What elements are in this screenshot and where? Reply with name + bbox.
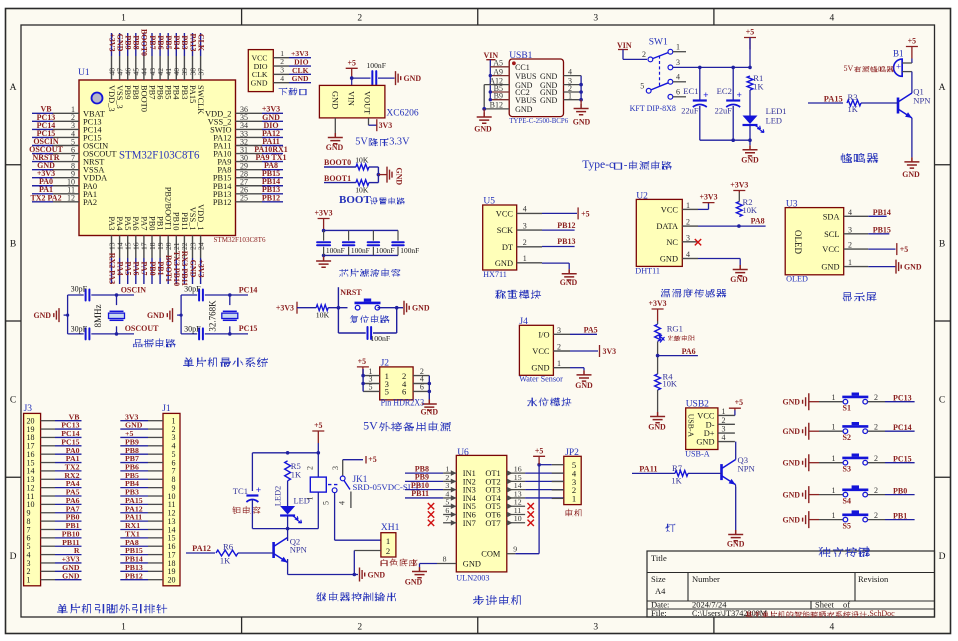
svg-text:PB0: PB0 [893, 486, 907, 495]
svg-text:4: 4 [280, 74, 284, 83]
svg-text:+5: +5 [358, 357, 366, 366]
svg-text:PB5: PB5 [164, 35, 173, 49]
svg-text:Revision: Revision [858, 574, 889, 584]
svg-text:22uF: 22uF [715, 107, 733, 116]
svg-text:PC14: PC14 [239, 286, 258, 295]
svg-text:BOOT1: BOOT1 [324, 174, 351, 183]
svg-text:GND: GND [368, 571, 386, 580]
svg-text:VCC: VCC [661, 205, 679, 214]
svg-text:1K: 1K [220, 557, 230, 566]
svg-text:PA8: PA8 [751, 216, 765, 225]
svg-text:1: 1 [848, 258, 852, 267]
svg-text:PB7: PB7 [147, 85, 156, 99]
svg-text:GND: GND [730, 275, 748, 284]
svg-text:R3: R3 [848, 92, 858, 102]
svg-text:+: + [703, 91, 708, 101]
svg-text:GND: GND [326, 143, 344, 152]
svg-text:30pF: 30pF [184, 284, 201, 293]
svg-text:1: 1 [832, 423, 836, 432]
svg-text:XH1: XH1 [381, 523, 400, 533]
svg-text:Type-c: Type-c [582, 158, 614, 171]
svg-text:VCC: VCC [496, 209, 514, 218]
svg-text:2: 2 [306, 466, 315, 470]
svg-text:100nF: 100nF [351, 246, 370, 255]
svg-text:PA5: PA5 [584, 325, 598, 334]
svg-text:12: 12 [67, 194, 75, 203]
svg-text:GND: GND [404, 74, 422, 83]
svg-text:R7: R7 [672, 463, 683, 473]
svg-text:PB1: PB1 [893, 511, 907, 520]
svg-text:A: A [939, 83, 946, 93]
svg-text:3: 3 [557, 326, 561, 335]
svg-text:-: - [624, 159, 628, 171]
svg-text:OT7: OT7 [485, 519, 500, 528]
svg-text:2: 2 [523, 238, 527, 247]
svg-text:D: D [10, 552, 17, 562]
svg-text:PB9: PB9 [124, 35, 133, 49]
svg-text:GND: GND [821, 263, 839, 272]
svg-text:A: A [10, 83, 17, 93]
svg-text:+3V3: +3V3 [315, 209, 333, 218]
svg-text:1K: 1K [291, 471, 301, 480]
svg-text:+5: +5 [368, 455, 376, 464]
svg-text:BOOT0: BOOT0 [140, 29, 149, 56]
svg-text:R1: R1 [753, 73, 763, 83]
svg-text:GND: GND [782, 490, 800, 499]
svg-text:R6: R6 [223, 542, 234, 552]
svg-text:GND: GND [33, 311, 51, 320]
svg-text:STM32F103C8T6: STM32F103C8T6 [119, 149, 200, 161]
svg-text:PA15: PA15 [188, 85, 197, 103]
svg-text:PB4: PB4 [172, 35, 181, 49]
svg-text:VBUS: VBUS [515, 72, 536, 81]
svg-text:CC1: CC1 [515, 63, 530, 72]
svg-text:4: 4 [722, 433, 726, 442]
svg-text:GND: GND [904, 263, 922, 272]
svg-text:PC13: PC13 [893, 394, 912, 403]
svg-text:GND: GND [648, 423, 666, 432]
svg-text:PC14: PC14 [893, 423, 912, 432]
svg-text:2: 2 [848, 241, 852, 250]
svg-text:STM32F103C8T6: STM32F103C8T6 [214, 235, 266, 244]
svg-text:S3: S3 [843, 465, 851, 474]
svg-text:RX3 PB11: RX3 PB11 [180, 251, 189, 286]
svg-text:1: 1 [121, 14, 126, 24]
svg-text:GND: GND [782, 515, 800, 524]
svg-text:PA15: PA15 [824, 95, 843, 104]
svg-text:GND: GND [292, 74, 309, 83]
svg-text:4: 4 [338, 501, 347, 505]
svg-text:SW1: SW1 [649, 38, 668, 48]
svg-text:PB8: PB8 [131, 85, 140, 99]
svg-text:+5: +5 [581, 209, 589, 218]
svg-text:100nF: 100nF [367, 61, 386, 70]
svg-text:30pF: 30pF [71, 284, 88, 293]
svg-text:PB11: PB11 [411, 489, 429, 498]
svg-text:S4: S4 [843, 496, 851, 505]
svg-text:37: 37 [196, 68, 205, 76]
svg-text:2: 2 [686, 218, 690, 227]
svg-text:KFT DIP-8X8: KFT DIP-8X8 [630, 104, 676, 113]
svg-text:B: B [10, 239, 16, 249]
svg-text:8: 8 [443, 555, 447, 564]
svg-text:GND: GND [560, 278, 578, 287]
svg-text:D-: D- [706, 420, 715, 429]
svg-text:GND: GND [412, 304, 430, 313]
svg-text:Title: Title [651, 553, 667, 563]
svg-text:PB6: PB6 [156, 35, 165, 49]
svg-text:1: 1 [686, 201, 690, 210]
svg-text:10: 10 [514, 514, 522, 523]
svg-text:PB14: PB14 [873, 208, 891, 217]
svg-text:PA7: PA7 [140, 261, 149, 275]
svg-text:B1: B1 [893, 49, 904, 59]
svg-text:PA7: PA7 [139, 216, 148, 230]
svg-text:2: 2 [642, 50, 646, 59]
svg-text:1: 1 [722, 407, 726, 416]
svg-text:DT: DT [502, 243, 513, 252]
svg-text:SCK: SCK [497, 226, 513, 235]
svg-text:SWCLK: SWCLK [196, 85, 205, 114]
svg-text:PB12: PB12 [125, 571, 143, 580]
svg-text:NPN: NPN [290, 545, 308, 555]
svg-text:D: D [939, 552, 946, 562]
svg-text:VSS_1: VSS_1 [188, 207, 197, 231]
svg-text:Size: Size [651, 574, 666, 584]
svg-text:GND: GND [696, 438, 714, 447]
svg-text:Pin HDR2X3: Pin HDR2X3 [381, 399, 425, 409]
svg-text:PA5: PA5 [124, 261, 133, 275]
svg-text:IN7: IN7 [463, 519, 476, 528]
svg-text:PB8: PB8 [132, 35, 141, 49]
svg-text:NPN: NPN [913, 96, 931, 106]
svg-text:+: + [896, 62, 901, 72]
svg-text:VDD_3: VDD_3 [107, 85, 116, 112]
svg-text:100nF: 100nF [376, 246, 395, 255]
svg-text:32.768K: 32.768K [208, 300, 218, 332]
svg-text:I/O: I/O [538, 330, 549, 339]
svg-text:+3V3: +3V3 [699, 193, 717, 202]
svg-text:OLED: OLED [786, 274, 808, 283]
svg-text:1: 1 [523, 254, 527, 263]
svg-text:3.3V: 3.3V [389, 137, 410, 148]
svg-text:4: 4 [523, 205, 527, 214]
svg-text:4: 4 [568, 67, 572, 76]
svg-text:Number: Number [692, 574, 720, 584]
svg-text:NC: NC [666, 238, 678, 247]
svg-text:GND: GND [540, 72, 558, 81]
svg-text:PA2: PA2 [83, 198, 97, 207]
svg-text:GND: GND [421, 408, 439, 417]
svg-text:BOOT0: BOOT0 [139, 85, 148, 112]
svg-text:BOOT: BOOT [339, 194, 371, 206]
svg-text:5: 5 [385, 387, 389, 397]
svg-text:GND: GND [474, 124, 492, 133]
svg-text:2: 2 [357, 14, 362, 24]
svg-text:2: 2 [874, 511, 878, 520]
svg-text:100nF: 100nF [400, 246, 419, 255]
svg-text:10K: 10K [743, 206, 757, 215]
svg-text:NPN: NPN [738, 463, 756, 473]
svg-text:GND: GND [782, 459, 800, 468]
svg-text:2: 2 [874, 423, 878, 432]
svg-text:PB12: PB12 [557, 221, 575, 230]
svg-text:J1: J1 [162, 404, 171, 414]
svg-text:R5: R5 [291, 461, 301, 471]
svg-text:8MHz: 8MHz [93, 304, 103, 327]
svg-text:6: 6 [420, 383, 424, 392]
svg-text:OSCIN: OSCIN [121, 286, 147, 295]
svg-text:LED: LED [766, 117, 782, 126]
svg-text:PB13: PB13 [557, 237, 575, 246]
svg-text:GND: GND [902, 170, 920, 179]
svg-text:PB12: PB12 [262, 193, 280, 202]
svg-text:1: 1 [832, 486, 836, 495]
svg-text:+5: +5 [908, 37, 916, 46]
svg-text:24: 24 [196, 242, 205, 250]
svg-text:C: C [939, 396, 945, 406]
svg-text:3: 3 [686, 233, 690, 242]
svg-text:6: 6 [676, 88, 680, 97]
svg-text:.SchDoc: .SchDoc [867, 609, 895, 618]
svg-text:C:\Users\JT3742309M: C:\Users\JT3742309M [692, 609, 768, 618]
svg-text:PA6: PA6 [131, 216, 140, 230]
svg-text:A4: A4 [655, 586, 666, 596]
svg-text:3V3: 3V3 [379, 121, 393, 130]
svg-text:+3V3: +3V3 [276, 304, 294, 313]
svg-text:PB4: PB4 [172, 85, 181, 100]
svg-text:PA4: PA4 [115, 261, 124, 275]
svg-text:VDD_1: VDD_1 [196, 204, 205, 231]
svg-text:+5: +5 [900, 245, 908, 254]
svg-text:+: + [256, 486, 261, 496]
svg-text:5V: 5V [363, 419, 378, 433]
svg-text:10K: 10K [316, 311, 330, 320]
svg-text:4: 4 [676, 73, 680, 82]
svg-text:PC15: PC15 [893, 455, 912, 464]
svg-text:VBUS: VBUS [515, 96, 536, 105]
svg-text:GND: GND [62, 571, 80, 580]
svg-text:VOUT: VOUT [363, 91, 372, 114]
svg-text:1: 1 [27, 575, 31, 584]
svg-text:PC15: PC15 [239, 324, 258, 333]
svg-text:S5: S5 [843, 521, 851, 530]
svg-text:1: 1 [832, 454, 836, 463]
svg-text:PB1: PB1 [156, 216, 165, 230]
svg-text:7: 7 [445, 514, 449, 523]
svg-text:VSS_3: VSS_3 [115, 85, 124, 109]
svg-text:U1: U1 [78, 68, 90, 78]
svg-text:100nF: 100nF [370, 334, 391, 343]
svg-text:1: 1 [121, 623, 126, 633]
svg-text:LED1: LED1 [766, 106, 787, 116]
svg-text:PA6: PA6 [132, 261, 141, 275]
svg-text:25: 25 [240, 194, 248, 203]
svg-text:1: 1 [306, 497, 315, 501]
svg-text:OSCOUT: OSCOUT [125, 324, 159, 333]
svg-text:VIN: VIN [347, 91, 356, 106]
svg-text:1K: 1K [671, 476, 681, 485]
svg-text:1: 1 [568, 92, 572, 101]
svg-text:PB12: PB12 [213, 198, 232, 207]
svg-text:+: + [736, 91, 741, 101]
svg-text:10K: 10K [355, 156, 369, 165]
svg-text:Water Sensor: Water Sensor [519, 375, 563, 384]
svg-text:B: B [939, 239, 945, 249]
svg-text:EC2: EC2 [717, 86, 732, 96]
svg-text:GND: GND [463, 560, 481, 569]
svg-text:3: 3 [523, 221, 527, 230]
svg-text:S2: S2 [843, 433, 851, 442]
svg-text:30pF: 30pF [71, 324, 88, 333]
svg-text:4: 4 [848, 208, 852, 217]
svg-text:+5: +5 [735, 398, 743, 407]
svg-text:PB3: PB3 [180, 35, 189, 49]
svg-text:J3: J3 [24, 404, 33, 414]
svg-text:3: 3 [593, 623, 598, 633]
svg-text:5V: 5V [844, 64, 854, 73]
svg-text:DHT11: DHT11 [635, 267, 660, 276]
svg-text:2: 2 [874, 486, 878, 495]
svg-text:EC1: EC1 [683, 86, 698, 96]
svg-text:1: 1 [386, 536, 390, 546]
svg-text:Sheet: Sheet [815, 600, 835, 610]
svg-text:LED2: LED2 [274, 486, 283, 506]
svg-text:USB-A: USB-A [685, 450, 710, 459]
svg-text:TYPE-C-2500-BCP6: TYPE-C-2500-BCP6 [509, 116, 568, 125]
svg-text:PA11: PA11 [639, 465, 657, 474]
svg-text:+5: +5 [314, 421, 322, 430]
svg-text:GND: GND [660, 255, 678, 264]
svg-text:BOOT1: BOOT1 [164, 255, 173, 282]
svg-text:2: 2 [357, 623, 362, 633]
svg-text:C: C [10, 396, 16, 406]
svg-text:PB2/BOOT1: PB2/BOOT1 [164, 187, 173, 231]
svg-text:PB1: PB1 [156, 261, 165, 275]
svg-text:PB0: PB0 [148, 261, 157, 275]
svg-text:1: 1 [676, 43, 680, 52]
svg-text:DATA: DATA [656, 222, 678, 231]
svg-text:5V: 5V [355, 137, 368, 148]
svg-text:OLED: OLED [793, 230, 803, 254]
svg-text:CLK: CLK [196, 34, 205, 52]
svg-text:5: 5 [640, 82, 644, 91]
svg-text:File:: File: [651, 608, 667, 618]
svg-text:TX3 PB10: TX3 PB10 [172, 251, 181, 286]
svg-text:2: 2 [874, 393, 878, 402]
svg-text:GND: GND [727, 540, 745, 549]
svg-text:GND: GND [540, 96, 558, 105]
svg-text:20: 20 [168, 575, 176, 584]
svg-text:GND: GND [531, 364, 549, 373]
svg-text:3: 3 [848, 225, 852, 234]
svg-text:3: 3 [593, 14, 598, 24]
svg-text:VCC: VCC [697, 411, 715, 420]
svg-text:NRST: NRST [340, 288, 362, 297]
svg-text:PB7: PB7 [148, 35, 157, 49]
svg-text:RG1: RG1 [667, 323, 683, 333]
svg-text:GND: GND [573, 117, 591, 126]
svg-text:2: 2 [874, 454, 878, 463]
svg-text:GND: GND [515, 105, 533, 114]
svg-text:+5: +5 [535, 446, 543, 455]
svg-text:PA5: PA5 [123, 216, 132, 230]
svg-text:4: 4 [830, 623, 835, 633]
svg-text:GND: GND [741, 156, 759, 165]
svg-text:100nF: 100nF [326, 246, 345, 255]
svg-text:PB10: PB10 [172, 212, 181, 231]
svg-text:5: 5 [322, 501, 331, 505]
svg-text:S1: S1 [843, 404, 851, 413]
svg-text:3: 3 [331, 466, 340, 470]
svg-text:GND: GND [188, 260, 197, 278]
svg-text:PB0: PB0 [147, 216, 156, 230]
svg-text:VCC: VCC [532, 347, 550, 356]
svg-text:PB6: PB6 [156, 85, 165, 99]
svg-text:GND: GND [782, 427, 800, 436]
svg-text:PB5: PB5 [164, 85, 173, 99]
svg-text:+5: +5 [347, 58, 355, 67]
svg-text:1K: 1K [753, 83, 763, 92]
svg-text:RX2 PA3: RX2 PA3 [107, 253, 116, 285]
svg-text:3: 3 [676, 58, 680, 67]
svg-text:SCL: SCL [824, 230, 839, 239]
svg-text:HX711: HX711 [483, 270, 507, 279]
svg-text:GND: GND [115, 34, 124, 52]
svg-text:GND: GND [495, 259, 513, 268]
svg-text:6: 6 [402, 387, 407, 397]
svg-text:10K: 10K [663, 380, 677, 389]
svg-text:GND: GND [405, 578, 423, 587]
svg-text:2: 2 [722, 416, 726, 425]
svg-text:+3V3: +3V3 [196, 259, 205, 277]
svg-text:1: 1 [557, 359, 561, 368]
svg-text:PB9: PB9 [123, 85, 132, 99]
svg-text:GND: GND [331, 91, 340, 109]
svg-text:2: 2 [386, 546, 390, 556]
svg-text:XC6206: XC6206 [386, 109, 418, 119]
svg-text:PA6: PA6 [682, 347, 696, 356]
svg-text:2: 2 [557, 343, 561, 352]
svg-text:BOOT0: BOOT0 [324, 158, 351, 167]
svg-text:PB15: PB15 [873, 225, 891, 234]
svg-text:USB-A: USB-A [687, 414, 696, 438]
svg-text:PA3: PA3 [107, 216, 116, 230]
svg-text:+3V3: +3V3 [649, 299, 667, 308]
svg-text:1: 1 [832, 393, 836, 402]
svg-text:GND: GND [147, 311, 165, 320]
svg-text:+3V3: +3V3 [730, 181, 748, 190]
svg-text:22uF: 22uF [681, 107, 699, 116]
svg-text:GND: GND [575, 381, 593, 390]
svg-text:GND: GND [395, 168, 404, 186]
svg-text:1: 1 [572, 494, 576, 504]
svg-text:PA4: PA4 [115, 216, 124, 231]
svg-text:PA12: PA12 [192, 544, 211, 553]
svg-text:TC1: TC1 [233, 486, 248, 496]
svg-text:4: 4 [686, 250, 690, 259]
svg-text:SDA: SDA [823, 212, 840, 221]
svg-text:VIN: VIN [617, 41, 632, 50]
svg-text:1: 1 [832, 511, 836, 520]
svg-text:COM: COM [481, 550, 501, 559]
svg-text:3V3: 3V3 [603, 347, 617, 356]
svg-text:5: 5 [369, 383, 373, 392]
svg-text:10K: 10K [355, 185, 369, 194]
svg-text:GND: GND [782, 398, 800, 407]
svg-text:4: 4 [830, 14, 835, 24]
svg-text:1K: 1K [848, 105, 858, 114]
